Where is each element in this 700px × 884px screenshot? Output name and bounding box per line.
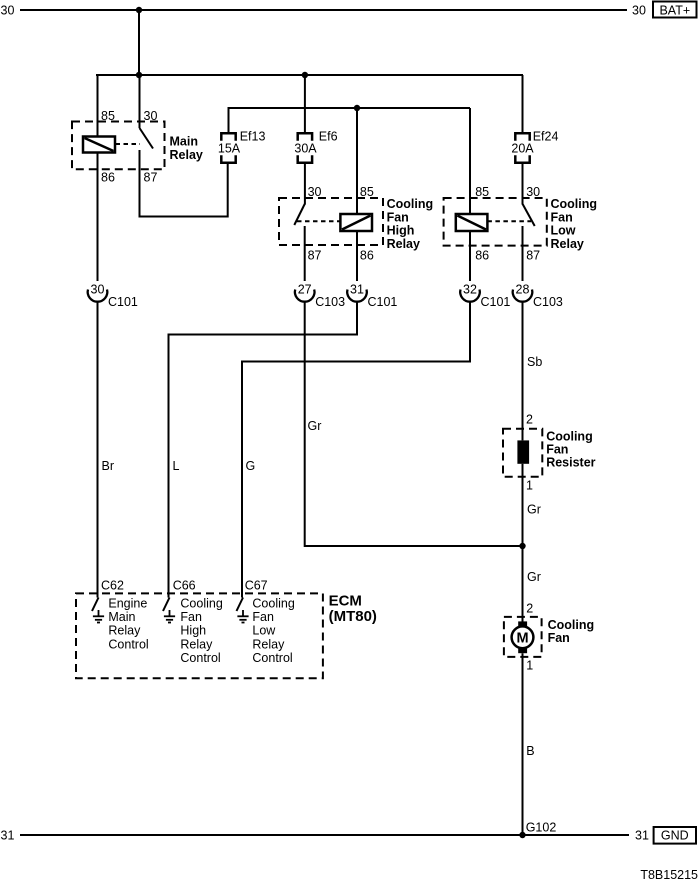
- low relay actuator dashed: [487, 220, 531, 222]
- wire low relay pin 85: [469, 231, 471, 281]
- wire resister to motor: [522, 464, 524, 622]
- wire Gr from connector 27 to junction: [305, 302, 523, 546]
- ECM switch blade C67: [237, 598, 244, 612]
- svg-text:87: 87: [308, 249, 322, 263]
- svg-text:87: 87: [526, 249, 540, 263]
- svg-text:Relay: Relay: [387, 237, 420, 251]
- wire high relay pin 87: [304, 226, 306, 281]
- svg-text:Ef13: Ef13: [240, 130, 266, 144]
- svg-text:Cooling: Cooling: [180, 597, 222, 611]
- fuse Ef13: [221, 133, 235, 162]
- svg-text:C62: C62: [101, 579, 124, 593]
- wire Sb from connector 28 to resister: [522, 302, 524, 441]
- svg-text:Fan: Fan: [551, 210, 573, 224]
- svg-text:G: G: [246, 459, 256, 473]
- wire main relay pin 87 to fuse Ef13: [140, 150, 228, 217]
- wire Ef24 bottom to low relay pin30: [522, 163, 524, 205]
- fuse Ef6: [298, 133, 312, 162]
- wire coil feed line from Ef13: [229, 108, 471, 133]
- ECM switch blade C66: [163, 598, 170, 612]
- wire main relay pin 30: [139, 75, 141, 128]
- wire Ef6 top: [304, 75, 306, 133]
- svg-text:Fan: Fan: [180, 610, 202, 624]
- svg-text:Ef6: Ef6: [319, 130, 338, 144]
- wire main relay pin 85: [97, 75, 99, 137]
- svg-text:Ef24: Ef24: [533, 130, 559, 144]
- svg-text:L: L: [173, 459, 180, 473]
- svg-text:Sb: Sb: [527, 355, 542, 369]
- ECM name label: [329, 593, 377, 626]
- svg-text:C103: C103: [315, 295, 345, 309]
- svg-text:Relay: Relay: [551, 237, 584, 251]
- svg-text:85: 85: [360, 185, 374, 199]
- svg-text:C103: C103: [533, 295, 563, 309]
- svg-text:B: B: [526, 744, 534, 758]
- svg-text:30: 30: [526, 185, 540, 199]
- wire L from connector 31 to ECM C66: [169, 302, 358, 598]
- high relay switch blade: [294, 204, 304, 225]
- main relay U1 dashed box: [72, 122, 165, 170]
- svg-text:30: 30: [144, 109, 158, 123]
- connector C101 pin 30: [88, 290, 108, 302]
- svg-text:Relay: Relay: [252, 637, 285, 651]
- svg-text:Gr: Gr: [527, 503, 541, 517]
- svg-text:2: 2: [526, 413, 533, 427]
- ground symbol C66: [164, 610, 175, 623]
- motor name label: [548, 618, 595, 645]
- svg-text:15A: 15A: [218, 142, 241, 156]
- svg-text:30: 30: [308, 185, 322, 199]
- svg-text:31: 31: [350, 283, 364, 297]
- wire Ef13 top: [228, 108, 230, 133]
- svg-text:Relay: Relay: [170, 148, 203, 162]
- svg-text:1: 1: [526, 659, 533, 673]
- low relay coil: [456, 214, 488, 231]
- svg-text:27: 27: [298, 283, 312, 297]
- svg-text:Cooling: Cooling: [387, 197, 434, 211]
- svg-text:Engine: Engine: [108, 597, 147, 611]
- svg-text:Control: Control: [252, 651, 292, 665]
- main relay actuator dashed: [116, 143, 141, 145]
- svg-text:30: 30: [1, 4, 15, 18]
- connector C103 pin 27: [295, 290, 315, 302]
- svg-text:Fan: Fan: [387, 210, 409, 224]
- svg-text:20A: 20A: [511, 142, 534, 156]
- svg-text:C67: C67: [245, 579, 268, 593]
- svg-text:28: 28: [516, 283, 530, 297]
- svg-text:Fan: Fan: [548, 631, 570, 645]
- svg-text:87: 87: [144, 171, 158, 185]
- main relay switch blade: [140, 128, 154, 149]
- high relay coil: [340, 214, 372, 231]
- svg-text:Relay: Relay: [180, 637, 213, 651]
- low relay name label: [551, 197, 598, 251]
- svg-text:(MT80): (MT80): [329, 608, 377, 625]
- svg-text:High: High: [387, 224, 415, 238]
- junction bus2 at x139: [136, 72, 142, 78]
- svg-text:ECM: ECM: [329, 593, 362, 610]
- svg-text:85: 85: [475, 185, 489, 199]
- svg-text:Low: Low: [551, 224, 576, 238]
- motor body circle: [512, 626, 534, 648]
- ECM C66 function label: [180, 597, 222, 665]
- wire Br to ECM C62: [97, 302, 99, 598]
- high relay name label: [387, 197, 434, 251]
- svg-text:31: 31: [1, 829, 15, 843]
- svg-text:C66: C66: [173, 579, 196, 593]
- svg-text:86: 86: [475, 249, 489, 263]
- svg-text:M: M: [516, 631, 528, 647]
- svg-text:31: 31: [635, 829, 649, 843]
- junction coil feed at x357: [354, 105, 360, 111]
- svg-text:Cooling: Cooling: [548, 618, 595, 632]
- wire bottom bus 31: [20, 834, 629, 836]
- ground symbol C67: [237, 610, 248, 623]
- BAT+ terminal: [653, 2, 697, 18]
- ECM dashed box: [76, 593, 323, 678]
- svg-text:30A: 30A: [294, 142, 317, 156]
- cooling fan high relay dashed box: [279, 198, 383, 245]
- ECM switch blade C62: [92, 598, 99, 612]
- junction Gr wires: [519, 543, 525, 549]
- resister name label: [546, 430, 595, 470]
- svg-text:Cooling: Cooling: [252, 597, 294, 611]
- svg-text:1: 1: [526, 479, 533, 493]
- motor terminal bottom: [518, 648, 527, 654]
- svg-text:Control: Control: [108, 637, 148, 651]
- svg-text:85: 85: [101, 109, 115, 123]
- cooling fan motor dashed box: [504, 617, 542, 657]
- connector C101 pin 31: [347, 290, 367, 302]
- svg-text:Fan: Fan: [546, 443, 568, 457]
- svg-text:Gr: Gr: [527, 570, 541, 584]
- fuse Ef24: [515, 133, 529, 162]
- svg-text:Fan: Fan: [252, 610, 274, 624]
- svg-text:GND: GND: [661, 829, 689, 843]
- wire B motor to ground bus: [522, 653, 524, 835]
- wire bus 2: [96, 74, 523, 76]
- junction top bus: [136, 7, 142, 13]
- svg-text:Low: Low: [252, 624, 276, 638]
- svg-text:G102: G102: [526, 821, 557, 835]
- svg-text:Main: Main: [108, 610, 135, 624]
- svg-text:C101: C101: [481, 295, 511, 309]
- GND terminal: [654, 827, 696, 844]
- svg-text:30: 30: [91, 283, 105, 297]
- wire to high relay coil pin85: [356, 108, 358, 214]
- resister element body: [517, 440, 529, 463]
- motor terminal top: [518, 621, 527, 627]
- svg-text:Main: Main: [170, 135, 198, 149]
- svg-text:BAT+: BAT+: [659, 4, 690, 18]
- cooling fan low relay dashed box: [444, 198, 547, 246]
- svg-text:Br: Br: [102, 459, 115, 473]
- svg-text:Gr: Gr: [308, 419, 322, 433]
- wire top bus 30: [20, 9, 627, 11]
- svg-text:Cooling: Cooling: [551, 197, 598, 211]
- wire G from connector 32 to ECM C67: [242, 302, 470, 598]
- connector C103 pin 28: [513, 290, 533, 302]
- svg-text:T8B15215: T8B15215: [640, 868, 698, 882]
- svg-text:2: 2: [526, 602, 533, 616]
- junction bus2 at x305: [302, 72, 308, 78]
- wire main relay pin 86: [97, 153, 99, 282]
- main relay coil: [83, 137, 115, 153]
- svg-text:C101: C101: [108, 295, 138, 309]
- svg-text:High: High: [180, 624, 206, 638]
- svg-text:Cooling: Cooling: [546, 430, 593, 444]
- wire from top bus down: [138, 10, 140, 75]
- connector C101 pin 32: [460, 290, 480, 302]
- svg-text:32: 32: [463, 283, 477, 297]
- wire low relay pin 87: [522, 226, 524, 281]
- svg-text:Resister: Resister: [546, 456, 595, 470]
- wire Ef24 top: [522, 75, 524, 133]
- low relay switch blade: [523, 204, 535, 226]
- svg-text:C101: C101: [368, 295, 398, 309]
- svg-text:86: 86: [101, 171, 115, 185]
- svg-text:30: 30: [632, 4, 646, 18]
- svg-text:86: 86: [360, 249, 374, 263]
- main relay name label: [170, 135, 203, 163]
- cooling fan resister dashed box: [503, 429, 542, 477]
- wire Ef6 bottom to high relay pin30: [304, 163, 306, 205]
- wire high relay pin 86: [356, 231, 358, 281]
- ECM C62 function label: [108, 597, 148, 652]
- junction G102: [519, 832, 525, 838]
- ground symbol C62: [93, 610, 104, 623]
- ECM C67 function label: [252, 597, 294, 665]
- svg-text:Relay: Relay: [108, 624, 141, 638]
- high relay actuator dashed: [297, 220, 340, 222]
- wire to low relay coil pin85: [469, 108, 471, 214]
- svg-text:Control: Control: [180, 651, 220, 665]
